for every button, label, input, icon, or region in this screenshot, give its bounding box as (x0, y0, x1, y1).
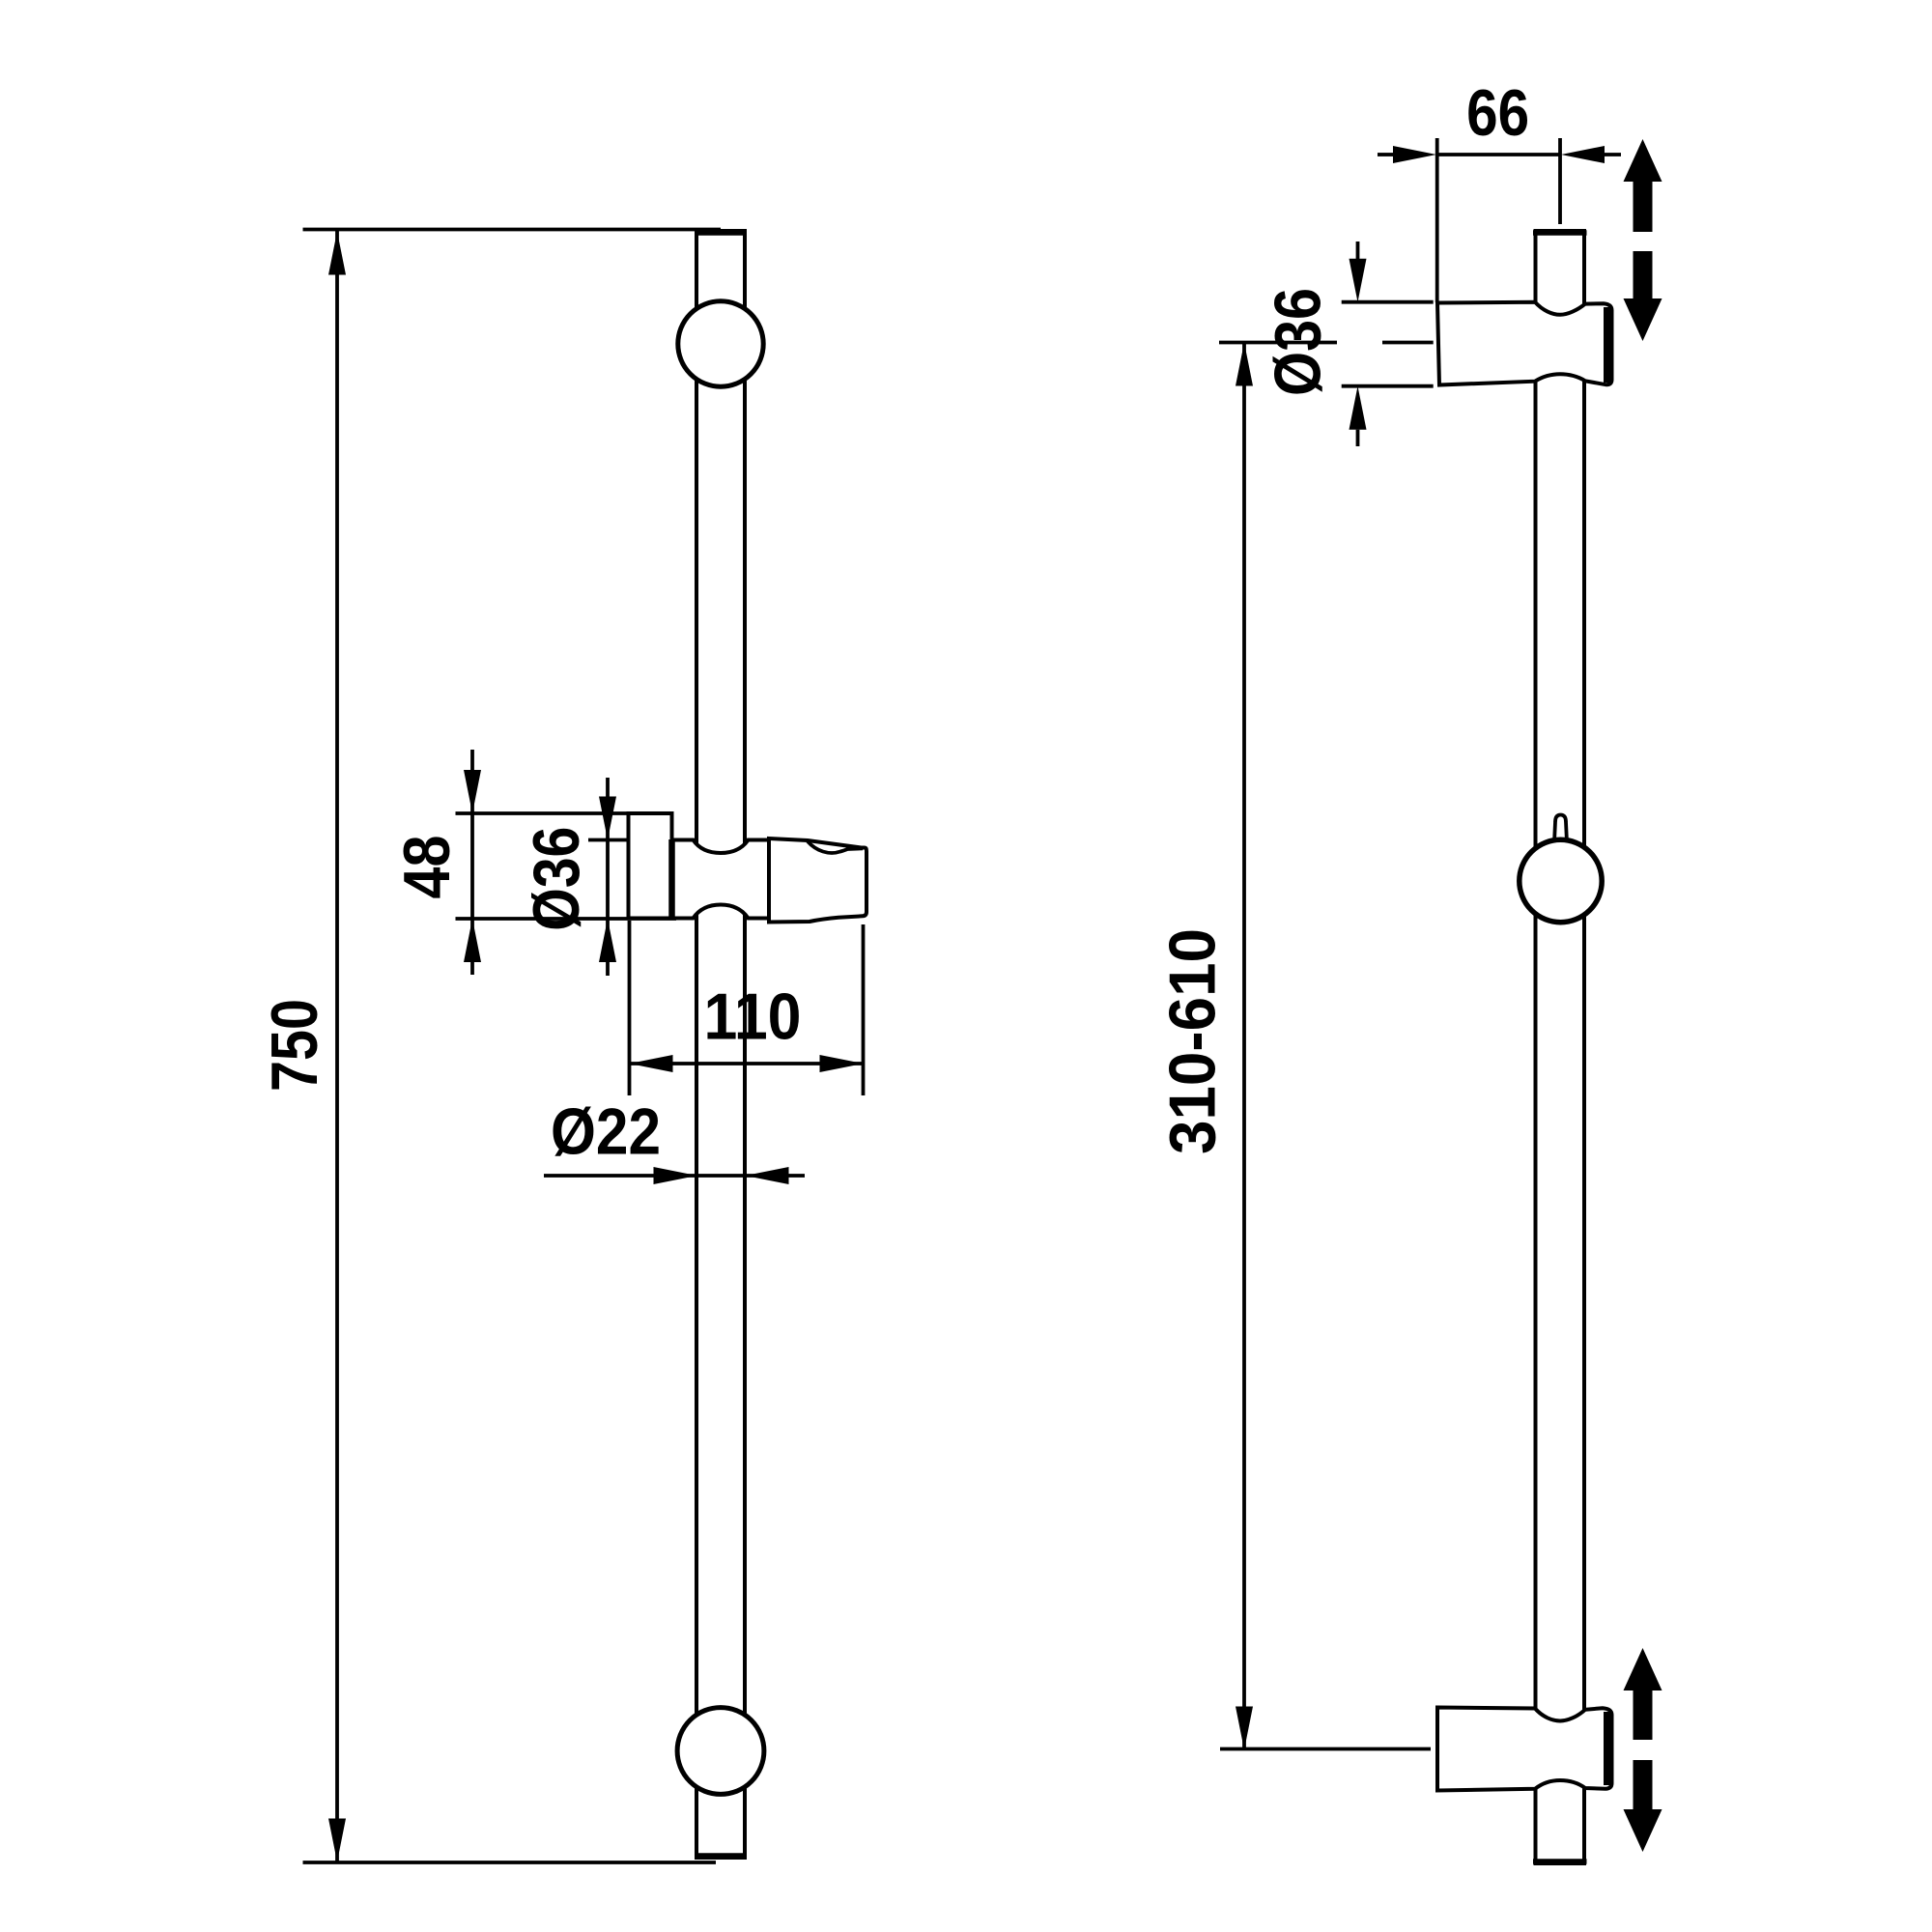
dim diam36 left extension line (588, 838, 627, 842)
slider wall collar (629, 813, 672, 919)
dim 66 left extension line (1435, 138, 1439, 302)
bottom bracket end cap thick (1604, 1712, 1610, 1785)
slider body (670, 840, 771, 919)
dim 310-610 bottom extension line (1220, 1747, 1431, 1751)
dim 310-610 line (1242, 343, 1246, 1750)
dim 110 right extension line (862, 924, 866, 1095)
dim 750 line (335, 231, 339, 1862)
dim diam36 right bottom extension line (1342, 384, 1434, 388)
knob lever pin (1554, 815, 1567, 843)
top bracket side view (1437, 302, 1612, 385)
motion arrow bottom up (1624, 1648, 1662, 1740)
top bracket end cap thick (1604, 307, 1610, 383)
dim 66 right arrow tail (1605, 153, 1621, 156)
dim diam36 right bottom arrow (1350, 386, 1367, 430)
dim 110 left extension line (628, 921, 632, 1095)
dim 310-610 top extension line (1219, 341, 1337, 345)
dim diam36 right bottom arrow tail (1356, 430, 1360, 446)
dim 310-610 top arrow (1236, 343, 1253, 386)
dim 66 left arrow (1393, 146, 1436, 163)
shower holder cup (769, 838, 867, 923)
dim 48 top extension line (456, 811, 672, 815)
bottom bracket side view (1437, 1708, 1612, 1791)
rod bottom end cap right view (1533, 1859, 1587, 1864)
collar right edge thick (668, 839, 675, 919)
dim diam36 right top extension line (1342, 300, 1434, 304)
dim diam36 left bottom arrow (599, 919, 616, 962)
dim 750 top extension line (303, 228, 722, 232)
svg-text:66: 66 (1466, 76, 1529, 150)
rail rod left view (696, 231, 745, 1858)
dim 750 bottom extension line (303, 1861, 717, 1864)
dim diam36 left line (606, 778, 610, 976)
dim diam22 line (544, 1174, 805, 1178)
rod top end cap left view (695, 230, 747, 236)
svg-text:48: 48 (390, 836, 464, 899)
dim 48 line (470, 750, 474, 975)
holder cup slot opening (808, 841, 863, 853)
dim 310-610 bottom arrow (1236, 1707, 1253, 1750)
motion arrow top up (1624, 139, 1662, 232)
top wall mount circle (678, 301, 763, 386)
rod bottom end cap left view (695, 1853, 747, 1859)
dim 66 right extension line (1558, 138, 1562, 224)
bottom wall mount circle (677, 1708, 764, 1795)
dim 110 line (630, 1062, 864, 1065)
dim diam36 left top arrow (599, 797, 616, 840)
dim 66 right arrow (1561, 146, 1605, 163)
dim diam22 right arrow (746, 1167, 789, 1184)
rail rod right view (1536, 231, 1585, 1863)
dim diam36 right top arrow (1350, 259, 1367, 302)
motion arrow top down (1624, 251, 1662, 341)
dim diam36 right top arrow tail (1356, 241, 1360, 259)
dim 66 left arrow tail (1378, 153, 1393, 156)
dim 48 top arrow (464, 770, 481, 813)
dim 48 bottom arrow (464, 919, 481, 962)
dim 48 bottom extension line (456, 917, 677, 921)
dim diam22 left arrow (654, 1167, 697, 1184)
svg-text:Ø22: Ø22 (551, 1095, 661, 1169)
rod top end cap right view (1533, 230, 1587, 236)
dim 750 top arrow (328, 232, 346, 275)
motion arrow bottom down (1624, 1760, 1662, 1852)
dim 110 right arrow (820, 1055, 864, 1072)
svg-text:110: 110 (704, 980, 802, 1053)
slider knob circle (1520, 839, 1602, 922)
dim 750 bottom arrow (328, 1819, 346, 1862)
svg-text:310-610: 310-610 (1155, 928, 1229, 1154)
svg-text:750: 750 (258, 999, 331, 1092)
dim 66 line (1437, 153, 1560, 156)
bracket axis dash (1382, 341, 1434, 345)
svg-text:Ø36: Ø36 (520, 827, 593, 931)
dim 110 left arrow (630, 1055, 673, 1072)
